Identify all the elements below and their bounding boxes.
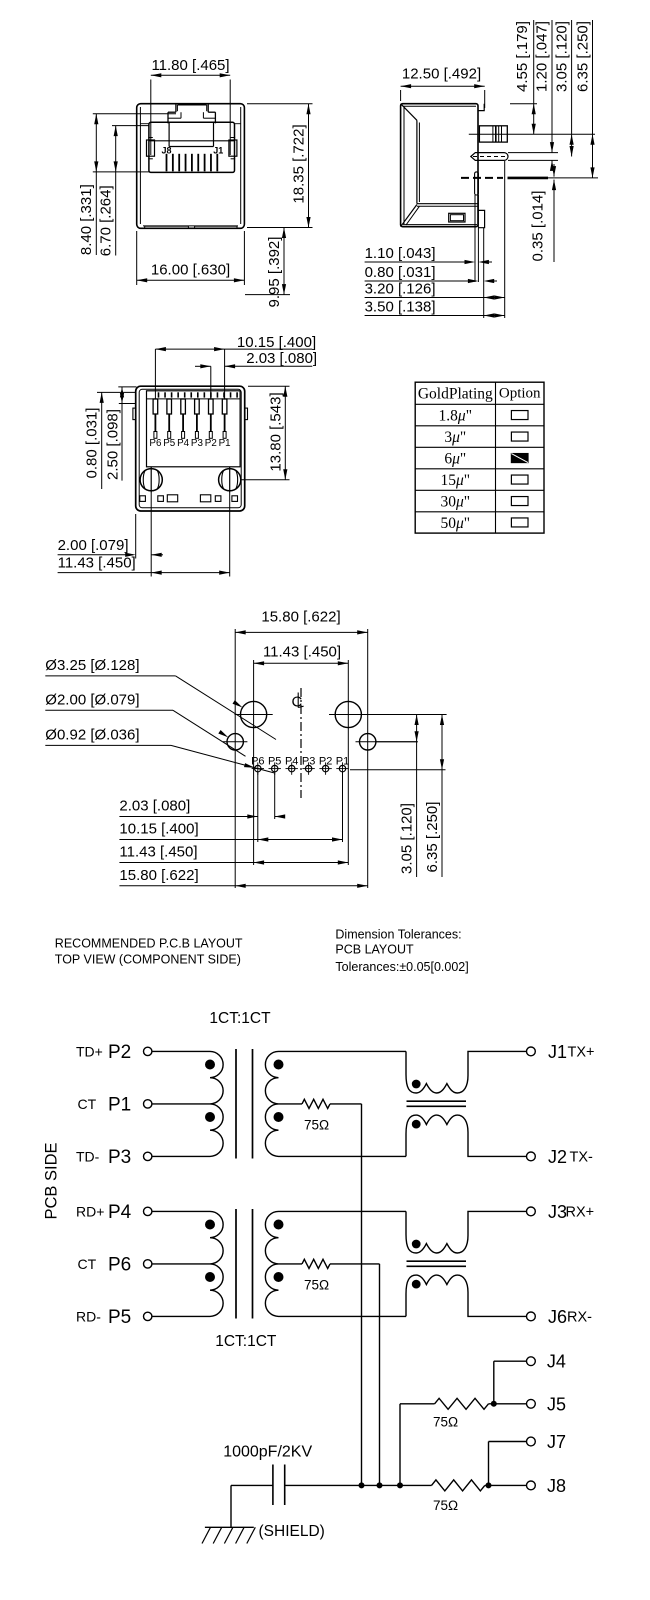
pill edge exts bbox=[508, 153, 558, 161]
wire R2 to node bbox=[330, 1263, 380, 1265]
resistor R3 75ohm bbox=[435, 1398, 489, 1409]
svg-text:P4: P4 bbox=[177, 438, 190, 449]
svg-text:11.80 [.465]: 11.80 [.465] bbox=[151, 57, 229, 74]
svg-text:Dimension Tolerances:: Dimension Tolerances: bbox=[335, 928, 461, 942]
svg-text:P2: P2 bbox=[319, 756, 332, 768]
label J1 TX+ bbox=[548, 1042, 595, 1062]
transformer T1 primary winding bbox=[210, 1051, 223, 1156]
pcb pin ext P5 bbox=[274, 772, 276, 819]
transformer T1 primary dots bbox=[205, 1060, 215, 1123]
svg-text:J2: J2 bbox=[548, 1147, 567, 1167]
note tolerances bbox=[335, 928, 468, 975]
svg-text:1.20 [.047]: 1.20 [.047] bbox=[534, 21, 551, 92]
svg-text:TX+: TX+ bbox=[568, 1045, 595, 1061]
terminal J2 bbox=[527, 1152, 536, 1161]
svg-text:Ø0.92 [Ø.036]: Ø0.92 [Ø.036] bbox=[45, 726, 139, 743]
dim 0.35 [.014] bbox=[530, 164, 557, 262]
svg-text:P2: P2 bbox=[205, 438, 217, 449]
wire R3 left bbox=[400, 1404, 435, 1486]
terminal P1 bbox=[144, 1100, 152, 1108]
svg-text:J8: J8 bbox=[162, 146, 172, 156]
svg-text:(SHIELD): (SHIELD) bbox=[259, 1523, 325, 1540]
svg-text:6.70 [.264]: 6.70 [.264] bbox=[97, 185, 114, 256]
label J5 bbox=[547, 1394, 566, 1414]
pcb layout dim 11.43 top bbox=[254, 644, 349, 666]
svg-text:PCB LAYOUT: PCB LAYOUT bbox=[335, 943, 414, 957]
svg-text:6.35 [.250]: 6.35 [.250] bbox=[575, 21, 592, 92]
common-mode choke L1 bbox=[406, 1051, 527, 1156]
pcb centerline bbox=[300, 688, 302, 798]
terminal P2 bbox=[144, 1047, 152, 1055]
wire node TX vertical bbox=[361, 1104, 363, 1486]
bottom view left post bbox=[140, 467, 162, 493]
front view contact comb bbox=[167, 154, 218, 172]
svg-text:J1: J1 bbox=[213, 146, 223, 156]
label PCB SIDE bbox=[43, 1142, 61, 1219]
pin label TD+ P2 bbox=[76, 1042, 131, 1063]
label SHIELD bbox=[259, 1523, 325, 1540]
side view shield latch pill bbox=[471, 153, 508, 161]
svg-text:4.55 [.179]: 4.55 [.179] bbox=[514, 21, 531, 92]
svg-text:TOP VIEW (COMPONENT SIDE): TOP VIEW (COMPONENT SIDE) bbox=[55, 953, 241, 967]
svg-text:50μ": 50μ" bbox=[440, 515, 470, 532]
svg-text:P4: P4 bbox=[108, 1202, 132, 1223]
svg-text:P1: P1 bbox=[219, 438, 231, 449]
wire node RX vertical bbox=[379, 1264, 381, 1486]
table option 30u checkbox bbox=[511, 497, 528, 506]
pcb dim 15.80 bbox=[119, 867, 367, 888]
svg-text:75Ω: 75Ω bbox=[304, 1118, 329, 1133]
svg-text:10.15 [.400]: 10.15 [.400] bbox=[119, 821, 198, 838]
wire T1 secondary top bbox=[279, 1050, 407, 1052]
dim 8.40 [.331] bbox=[78, 114, 176, 255]
transformer T2 secondary dots bbox=[274, 1220, 284, 1283]
svg-text:P5: P5 bbox=[108, 1307, 131, 1328]
front view jack cavity bbox=[140, 122, 240, 172]
wire J5 bbox=[489, 1403, 527, 1405]
svg-text:CT: CT bbox=[78, 1256, 97, 1272]
svg-text:3.50 [.138]: 3.50 [.138] bbox=[365, 299, 436, 316]
dim 3.20 [.126] bbox=[365, 281, 505, 300]
svg-text:P6: P6 bbox=[108, 1254, 131, 1275]
dim 2.00 [.079] bbox=[58, 514, 163, 559]
svg-text:75Ω: 75Ω bbox=[433, 1498, 458, 1513]
svg-text:16.00 [.630]: 16.00 [.630] bbox=[151, 262, 230, 279]
table row 50u label bbox=[440, 515, 470, 532]
junction TX node bbox=[359, 1482, 365, 1488]
terminal P3 bbox=[144, 1152, 152, 1160]
wire T2 secondary top bbox=[279, 1210, 407, 1212]
svg-text:0.80 [.031]: 0.80 [.031] bbox=[365, 264, 436, 281]
wire P4 to transformer bbox=[152, 1210, 210, 1212]
pcb right hole 2.00 bbox=[356, 734, 418, 750]
svg-text:2.00 [.079]: 2.00 [.079] bbox=[58, 537, 129, 554]
svg-text:J8: J8 bbox=[547, 1476, 566, 1496]
svg-text:12.50 [.492]: 12.50 [.492] bbox=[402, 66, 481, 83]
dim 4.55 [.179] bbox=[514, 20, 536, 134]
label J6 RX- bbox=[548, 1307, 592, 1327]
svg-text:75Ω: 75Ω bbox=[433, 1415, 458, 1430]
dim 3.50 [.138] bbox=[365, 299, 505, 318]
dim 16.00 [.630] bbox=[137, 231, 245, 285]
svg-text:RD-: RD- bbox=[76, 1308, 101, 1324]
table row 1.8u label bbox=[439, 408, 472, 425]
table header Option bbox=[499, 386, 541, 402]
svg-text:TD-: TD- bbox=[76, 1148, 100, 1164]
svg-text:J3: J3 bbox=[548, 1202, 567, 1222]
tab centerline ext bbox=[469, 133, 595, 135]
svg-text:P5: P5 bbox=[163, 438, 176, 449]
wire P3 to transformer bbox=[152, 1155, 210, 1157]
pcb left hole 2.00 bbox=[223, 734, 247, 750]
dim 2.50 [.098] bottom view bbox=[105, 387, 137, 481]
pcb dim 6.35 right bbox=[424, 715, 444, 878]
svg-text:J6: J6 bbox=[548, 1307, 567, 1327]
svg-text:J4: J4 bbox=[547, 1352, 566, 1372]
svg-text:P1: P1 bbox=[336, 756, 349, 768]
front view plug profile bbox=[149, 122, 235, 146]
table option 50u checkbox bbox=[511, 518, 528, 527]
junction J5 node bbox=[397, 1482, 403, 1488]
svg-text:P3: P3 bbox=[108, 1147, 131, 1168]
wire T2 center tap bbox=[279, 1263, 303, 1265]
front view right EMI spring bbox=[229, 138, 237, 159]
label J4 bbox=[547, 1352, 566, 1372]
svg-text:PCB SIDE: PCB SIDE bbox=[43, 1142, 61, 1219]
transformer T1 secondary winding bbox=[265, 1051, 278, 1156]
svg-text:2.03 [.080]: 2.03 [.080] bbox=[119, 798, 190, 815]
dim 9.95 [.392] bbox=[245, 228, 290, 308]
label J3 RX+ bbox=[548, 1202, 594, 1222]
dim 18.35 [.722] bbox=[247, 104, 313, 228]
tab ext lines bbox=[484, 161, 505, 318]
wire capacitor to shield bbox=[231, 1485, 273, 1527]
pin label RD- P5 bbox=[76, 1307, 131, 1328]
bottom view body outline bbox=[136, 386, 245, 511]
resistor R1 75ohm bbox=[302, 1099, 330, 1108]
svg-text:P3: P3 bbox=[191, 438, 204, 449]
pcb ext vertical left small bbox=[234, 629, 236, 888]
dim 1.20 [.047] bbox=[534, 20, 555, 171]
svg-text:J7: J7 bbox=[547, 1432, 566, 1452]
dim 12.50 [.492] bbox=[401, 66, 485, 109]
label J8 bbox=[547, 1476, 566, 1496]
label 1CT:1CT bottom bbox=[215, 1333, 277, 1350]
side view top-right notch bbox=[478, 104, 484, 111]
svg-text:TD+: TD+ bbox=[76, 1043, 103, 1059]
capacitor C1 1000pF/2KV bbox=[273, 1465, 285, 1506]
label J8 front bbox=[162, 146, 172, 156]
terminal J1 bbox=[527, 1047, 536, 1056]
svg-text:15.80 [.622]: 15.80 [.622] bbox=[261, 609, 340, 626]
transformer T2 primary winding bbox=[210, 1211, 223, 1316]
front view mounting feet bbox=[145, 226, 237, 228]
terminal J6 bbox=[527, 1312, 536, 1321]
terminal J8 bbox=[527, 1481, 536, 1490]
svg-text:15μ": 15μ" bbox=[440, 472, 470, 489]
terminal P4 bbox=[144, 1207, 152, 1215]
pcb left mounting hole 3.25 bbox=[235, 701, 273, 727]
label R2 75ohm bbox=[304, 1278, 329, 1293]
wire T2 secondary bottom bbox=[279, 1315, 407, 1317]
dim 11.80 [.465] bbox=[151, 57, 230, 155]
svg-text:RX-: RX- bbox=[567, 1310, 592, 1326]
bottom view right post bbox=[219, 467, 241, 493]
side view ground tab bbox=[479, 126, 507, 142]
dim 10.15 [.400] bottom view bbox=[155, 334, 316, 399]
table row 6u label bbox=[444, 451, 466, 468]
bottom view side nubs bbox=[133, 408, 248, 420]
table option 1.8u checkbox bbox=[511, 411, 528, 420]
junction J4-J5 bbox=[491, 1401, 497, 1407]
terminal J4 bbox=[527, 1357, 536, 1366]
svg-text:0.35 [.014]: 0.35 [.014] bbox=[530, 191, 547, 262]
front view left EMI spring bbox=[147, 138, 155, 159]
wire P6 to transformer bbox=[152, 1263, 210, 1265]
svg-text:1000pF/2KV: 1000pF/2KV bbox=[223, 1444, 312, 1461]
pcb layout dim 15.80 top bbox=[235, 609, 368, 635]
svg-text:RECOMMENDED P.C.B LAYOUT: RECOMMENDED P.C.B LAYOUT bbox=[55, 937, 243, 951]
svg-text:RX+: RX+ bbox=[566, 1205, 595, 1221]
wire T1 secondary bottom bbox=[279, 1155, 407, 1157]
svg-text:10.15 [.400]: 10.15 [.400] bbox=[237, 334, 316, 351]
table header GoldPlating bbox=[418, 386, 493, 403]
svg-text:P6: P6 bbox=[149, 438, 162, 449]
label J2 TX- bbox=[548, 1147, 593, 1167]
resistor R4 75ohm bbox=[432, 1480, 485, 1491]
dim 6.35 [.250] bbox=[575, 20, 595, 178]
wire shield rail bbox=[285, 1484, 432, 1486]
svg-text:3.05 [.120]: 3.05 [.120] bbox=[554, 21, 571, 92]
svg-text:1.10 [.043]: 1.10 [.043] bbox=[365, 245, 436, 262]
svg-text:11.43 [.450]: 11.43 [.450] bbox=[119, 844, 197, 861]
pin label TD- P3 bbox=[76, 1147, 131, 1168]
label dia 2.00 bbox=[45, 691, 245, 756]
svg-text:2.03 [.080]: 2.03 [.080] bbox=[246, 350, 317, 367]
terminal J3 bbox=[527, 1207, 536, 1216]
table option 6u checked bbox=[511, 454, 528, 463]
svg-text:J5: J5 bbox=[547, 1394, 566, 1414]
svg-text:P5: P5 bbox=[268, 756, 281, 768]
pcb pin ext P6 bbox=[257, 772, 259, 842]
bottom view solder pads bbox=[140, 495, 238, 502]
label R3 75ohm bbox=[433, 1415, 458, 1430]
label C1 1000pF/2KV bbox=[223, 1444, 312, 1461]
svg-text:P2: P2 bbox=[108, 1042, 131, 1063]
terminal J5 bbox=[527, 1399, 536, 1408]
junction J7-J8 bbox=[486, 1482, 492, 1488]
side view bevel frame bbox=[401, 104, 478, 227]
wire P2 to transformer bbox=[152, 1050, 210, 1052]
svg-text:11.43 [.450]: 11.43 [.450] bbox=[58, 555, 136, 572]
svg-text:3μ": 3μ" bbox=[444, 429, 466, 446]
wire R1 to node bbox=[330, 1103, 362, 1105]
dim 2.03 [.080] bottom view bbox=[195, 350, 317, 399]
ground shield symbol bbox=[202, 1527, 255, 1543]
transformer T1 core bbox=[236, 1049, 253, 1159]
pin ext lines bbox=[475, 195, 478, 282]
svg-text:RD+: RD+ bbox=[76, 1203, 104, 1219]
svg-text:13.80 [.543]: 13.80 [.543] bbox=[268, 392, 285, 471]
svg-text:P3: P3 bbox=[302, 756, 315, 768]
body top ext bbox=[510, 103, 537, 105]
table option 15u checkbox bbox=[511, 475, 528, 484]
svg-text:Tolerances:±0.05[0.002]: Tolerances:±0.05[0.002] bbox=[335, 960, 468, 974]
table option 3u checkbox bbox=[511, 432, 528, 441]
svg-text:1.8μ": 1.8μ" bbox=[439, 408, 472, 425]
gold plating table grid bbox=[415, 382, 544, 533]
pcb pin hole labels bbox=[251, 756, 349, 768]
svg-text:P1: P1 bbox=[108, 1094, 131, 1115]
svg-text:P4: P4 bbox=[285, 756, 298, 768]
bottom view inner cavity bbox=[147, 391, 241, 467]
pcb dim 10.15 bbox=[119, 821, 342, 842]
dim 0.80 [.031] bbox=[365, 264, 497, 283]
label R4 75ohm bbox=[433, 1498, 458, 1513]
table row 15u label bbox=[440, 472, 470, 489]
wire J7 bbox=[489, 1442, 527, 1486]
transformer T2 core bbox=[236, 1209, 253, 1319]
pcb dim 2.03 bbox=[119, 798, 285, 819]
pin labels P6 P5 P4 P3 P2 P1 bbox=[149, 438, 230, 449]
front view body outline bbox=[137, 104, 245, 229]
svg-text:0.80 [.031]: 0.80 [.031] bbox=[84, 408, 101, 479]
svg-text:P6: P6 bbox=[251, 756, 264, 768]
pin label CT P1 bbox=[78, 1094, 132, 1115]
side view lower window bbox=[449, 213, 465, 222]
wire P1 to transformer bbox=[152, 1103, 210, 1105]
svg-text:1CT:1CT: 1CT:1CT bbox=[209, 1010, 271, 1027]
svg-text:3.05 [.120]: 3.05 [.120] bbox=[399, 803, 416, 874]
note recommended pcb layout bbox=[55, 937, 243, 967]
pcb ext vertical right small bbox=[367, 629, 369, 888]
wire J8 bbox=[485, 1484, 527, 1486]
table row 3u label bbox=[444, 429, 466, 446]
pin label CT P6 bbox=[78, 1254, 132, 1275]
label R1 75ohm bbox=[304, 1118, 329, 1133]
label J7 bbox=[547, 1432, 566, 1452]
table row 30u label bbox=[440, 494, 470, 511]
svg-text:GoldPlating: GoldPlating bbox=[418, 386, 493, 403]
wire P5 to transformer bbox=[152, 1315, 210, 1317]
svg-text:Ø2.00 [Ø.079]: Ø2.00 [Ø.079] bbox=[45, 691, 139, 708]
pcb pin ext P1 bbox=[342, 772, 344, 842]
pcb ext right rows bbox=[350, 742, 446, 770]
svg-text:6.35 [.250]: 6.35 [.250] bbox=[424, 802, 441, 873]
svg-text:6μ": 6μ" bbox=[444, 451, 466, 468]
svg-text:1CT:1CT: 1CT:1CT bbox=[215, 1333, 277, 1350]
svg-text:75Ω: 75Ω bbox=[304, 1278, 329, 1293]
dim 6.70 [.264] bbox=[97, 126, 148, 257]
pcb ext vertical right big bbox=[347, 660, 349, 865]
pcb ext vertical left big bbox=[253, 660, 255, 865]
svg-text:18.35 [.722]: 18.35 [.722] bbox=[291, 124, 308, 203]
front view latch tab bbox=[168, 104, 215, 124]
svg-text:TX-: TX- bbox=[570, 1150, 594, 1166]
resistor R2 75ohm bbox=[302, 1259, 330, 1268]
bottom view pins P6-P1 bbox=[153, 399, 227, 438]
dim 13.80 [.543] bbox=[241, 386, 290, 480]
label J1 front bbox=[213, 146, 223, 156]
label 1CT:1CT top bbox=[209, 1010, 271, 1027]
terminal P5 bbox=[144, 1312, 152, 1320]
side view lower-right tab bbox=[478, 210, 485, 227]
terminal P6 bbox=[144, 1260, 152, 1268]
pcb dim 3.05 right bbox=[399, 715, 419, 878]
svg-text:15.80 [.622]: 15.80 [.622] bbox=[119, 867, 198, 884]
label dia 3.25 bbox=[45, 657, 276, 740]
side view PCB surface line bbox=[461, 177, 598, 179]
pcb pin holes P6-P1 bbox=[252, 762, 349, 774]
pcb right mounting hole 3.25 bbox=[329, 701, 447, 727]
svg-text:2.50 [.098]: 2.50 [.098] bbox=[105, 409, 122, 480]
junction RX node bbox=[377, 1482, 383, 1488]
svg-text:11.43 [.450]: 11.43 [.450] bbox=[263, 644, 341, 661]
transformer T1 secondary dots bbox=[274, 1060, 284, 1123]
wire T1 center tap bbox=[279, 1103, 303, 1105]
pin label RD+ P4 bbox=[76, 1202, 132, 1223]
transformer T2 secondary winding bbox=[265, 1211, 278, 1316]
dim 1.10 [.043] bbox=[365, 245, 492, 264]
common-mode choke L2 bbox=[406, 1211, 527, 1316]
svg-text:Option: Option bbox=[499, 386, 541, 402]
side view through-hole pin bbox=[475, 172, 479, 195]
svg-text:J1: J1 bbox=[548, 1042, 567, 1062]
dim 11.43 [.450] bottom view bbox=[58, 493, 230, 577]
svg-text:9.95 [.392]: 9.95 [.392] bbox=[266, 237, 283, 308]
svg-text:CT: CT bbox=[78, 1096, 97, 1112]
pcb centerline symbol bbox=[292, 693, 304, 711]
terminal J7 bbox=[527, 1437, 536, 1446]
svg-text:8.40 [.331]: 8.40 [.331] bbox=[78, 184, 95, 255]
label dia 0.92 bbox=[45, 726, 274, 773]
wire J4 bbox=[494, 1361, 527, 1404]
svg-text:3.20 [.126]: 3.20 [.126] bbox=[365, 281, 436, 298]
side view body outline bbox=[401, 104, 478, 227]
bottom view comb strip bbox=[147, 392, 241, 399]
pcb dim 11.43 bbox=[119, 844, 348, 865]
dim 3.05 [.120] bbox=[554, 20, 574, 157]
dim 0.80 [.031] bottom view bbox=[84, 392, 137, 489]
transformer T2 primary dots bbox=[205, 1220, 215, 1283]
svg-text:Ø3.25 [Ø.128]: Ø3.25 [Ø.128] bbox=[45, 657, 139, 674]
svg-text:30μ": 30μ" bbox=[440, 494, 470, 511]
